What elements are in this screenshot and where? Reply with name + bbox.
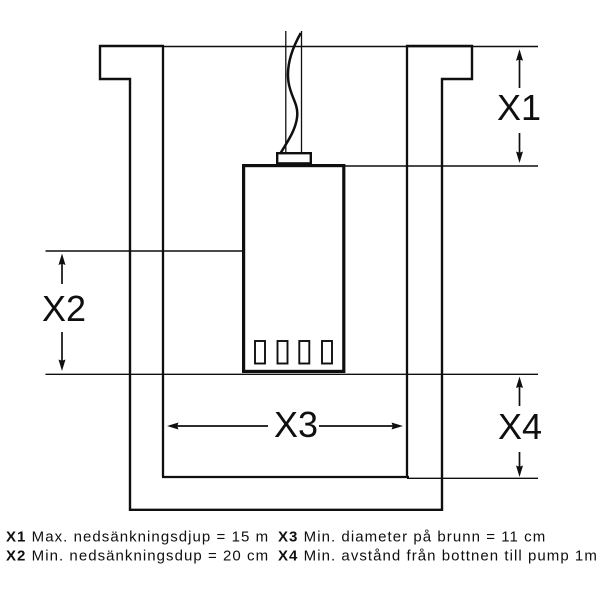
reference line pump-top level (X1 bottom): [345, 165, 538, 167]
wire top reference line (ground level, extension to X1): [163, 46, 538, 48]
well wall right: [406, 46, 472, 509]
well wall left: [100, 46, 164, 509]
well bottom outer: [129, 509, 443, 511]
pump slot 2: [278, 341, 288, 364]
svg-text:X1: X1: [497, 87, 541, 128]
svg-text:X4 Min. avstånd från bottnen t: X4 Min. avstånd från bottnen till pump 1…: [278, 548, 598, 565]
pump slot 4: [322, 341, 332, 364]
cable guide line left: [285, 31, 287, 153]
dimension X4 arrow up: [519, 386, 521, 406]
svg-text:X3: X3: [274, 404, 318, 445]
well wall right inner edge: [406, 45, 408, 477]
dimension X1 arrow down: [519, 133, 521, 153]
pump cap: [277, 153, 311, 163]
dimension X2 arrow up: [61, 262, 63, 284]
svg-text:X3 Min. diameter på brunn = 11: X3 Min. diameter på brunn = 11 cm: [278, 529, 546, 546]
svg-text:X2 Min. nedsänkningsdup = 20 c: X2 Min. nedsänkningsdup = 20 cm: [6, 548, 269, 565]
well bottom inner: [162, 476, 409, 478]
cable wavy line: [280, 33, 301, 154]
dimension X3 arrow left: [176, 425, 268, 427]
dimension X3 arrow right: [319, 425, 394, 427]
reference line water level (X2 top): [46, 250, 243, 252]
svg-text:X1 Max. nedsänkningsdjup = 15: X1 Max. nedsänkningsdjup = 15 m: [6, 529, 269, 546]
well wall left inner edge: [162, 45, 164, 477]
dimension X4 arrow down: [519, 452, 521, 468]
pump slot 1: [255, 341, 265, 364]
dimension X1 arrow up: [519, 58, 521, 88]
reference line well-bottom level (X4 bottom): [407, 477, 538, 479]
pump body: [244, 166, 344, 372]
cable guide line right: [301, 31, 303, 153]
pump slot 3: [299, 341, 309, 364]
dimension X2 arrow down: [61, 332, 63, 361]
reference line pump-bottom level (X2 bottom / X4 top): [46, 373, 539, 375]
svg-text:X2: X2: [42, 288, 86, 329]
svg-text:X4: X4: [498, 406, 542, 447]
